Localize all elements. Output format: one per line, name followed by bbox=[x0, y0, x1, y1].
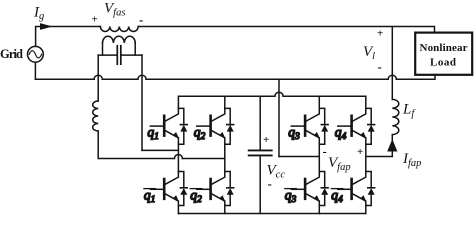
inductor L series coil bbox=[93, 101, 99, 131]
wire top line grid to transformer bbox=[36, 27, 101, 47]
transistor q1 complement (IGBT) bbox=[150, 172, 178, 214]
wire Lf branch top bbox=[391, 27, 393, 100]
transistor q2 (IGBT) bbox=[197, 96, 225, 171]
label q2 complement (overbar) bbox=[190, 188, 202, 206]
wire top line transformer to load bbox=[138, 27, 434, 33]
nonlinear load box bbox=[415, 33, 472, 75]
svg-text:q4: q4 bbox=[335, 125, 347, 143]
capacitor filter plates bbox=[117, 46, 121, 64]
svg-text:Ig: Ig bbox=[33, 5, 44, 23]
wire tank bus left bbox=[98, 54, 117, 56]
svg-text:Vfas: Vfas bbox=[104, 1, 125, 19]
wire return line middle segment bbox=[146, 78, 388, 80]
svg-text:-: - bbox=[378, 59, 382, 74]
wire A to leg1 midpoint bbox=[142, 149, 178, 151]
svg-text:q3: q3 bbox=[288, 125, 300, 143]
svg-text:q4: q4 bbox=[331, 188, 343, 206]
wire Lf to leg4 midpoint bbox=[366, 135, 393, 157]
svg-text:-: - bbox=[323, 144, 327, 159]
wire source bottom to return line bbox=[34, 62, 36, 79]
sine wave inside source bbox=[29, 51, 41, 58]
dc top rail left part bbox=[178, 95, 275, 97]
svg-text:Vl: Vl bbox=[363, 44, 375, 62]
svg-text:+: + bbox=[357, 146, 363, 158]
capacitor Vcc plates bbox=[249, 150, 272, 155]
svg-text:q1: q1 bbox=[147, 125, 159, 143]
transistor q3 (IGBT) bbox=[291, 96, 319, 171]
transistor q4 (IGBT) bbox=[338, 96, 366, 171]
svg-text:q1: q1 bbox=[144, 188, 156, 206]
dc bottom rail bbox=[178, 213, 365, 215]
wire tank left vertical bbox=[97, 55, 99, 101]
transistor q3 complement (IGBT) bbox=[291, 172, 319, 214]
transistor q2 complement (IGBT) bbox=[197, 172, 225, 214]
hop wire B over leg1 bbox=[174, 155, 182, 159]
wire B to leg2 midpoint bbox=[182, 158, 224, 160]
svg-text:+: + bbox=[377, 28, 383, 40]
dc top rail right part bbox=[283, 95, 366, 97]
capacitor Vcc top lead bbox=[259, 96, 261, 150]
inductor Lf coil bbox=[392, 99, 399, 134]
diode D1 complement antiparallel bbox=[178, 172, 187, 206]
hop rail over shunt return branch bbox=[275, 92, 283, 96]
wire return line right segment to load bbox=[396, 76, 435, 80]
wire coil to wire B corner bbox=[98, 131, 174, 159]
diode D3 complement antiparallel bbox=[319, 172, 328, 206]
svg-text:+: + bbox=[92, 14, 98, 26]
svg-text:Load: Load bbox=[430, 57, 456, 69]
svg-text:+: + bbox=[263, 134, 269, 146]
source Grid AC circle bbox=[28, 46, 44, 62]
svg-text:Vfap: Vfap bbox=[328, 155, 351, 173]
svg-text:Grid: Grid bbox=[0, 47, 23, 61]
hop over Lf branch bbox=[388, 75, 396, 79]
svg-text:q2: q2 bbox=[190, 188, 202, 206]
wire to leg3 midpoint bbox=[279, 156, 319, 158]
transformer primary winding bbox=[100, 27, 138, 32]
hop over tank right vertical bbox=[138, 75, 146, 79]
diode D2 complement antiparallel bbox=[225, 172, 234, 206]
diode D4 antiparallel with q4 bbox=[366, 108, 375, 144]
wire secondary right lead bbox=[134, 43, 136, 55]
diode D1 antiparallel with q1 bbox=[178, 108, 187, 144]
capacitor Vcc bottom lead bbox=[259, 156, 261, 214]
diode D4 complement antiparallel bbox=[366, 172, 375, 206]
svg-text:-: - bbox=[139, 12, 143, 27]
hop over tank left vertical bbox=[94, 75, 102, 79]
wire tank bus right bbox=[121, 54, 142, 56]
svg-text:Lf: Lf bbox=[402, 102, 416, 120]
wire secondary left lead bbox=[102, 43, 104, 55]
svg-text:Nonlinear: Nonlinear bbox=[420, 42, 468, 54]
label q4 complement (overbar) bbox=[331, 188, 343, 206]
svg-text:q3: q3 bbox=[285, 188, 297, 206]
diode D3 antiparallel with q3 bbox=[319, 108, 328, 144]
arrow Ig direction bbox=[40, 23, 53, 30]
label q3 complement (overbar) bbox=[285, 188, 297, 206]
diode D2 antiparallel with q2 bbox=[225, 108, 234, 144]
wire return line between hops bbox=[102, 78, 138, 80]
wire shunt branch left vertical bbox=[278, 79, 280, 156]
svg-text:-: - bbox=[268, 176, 272, 191]
transistor q4 complement (IGBT) bbox=[338, 172, 366, 214]
arrow Ifap direction bbox=[387, 139, 397, 152]
wire tank right vertical bbox=[141, 55, 143, 150]
transistor q1 (IGBT) bbox=[150, 96, 178, 171]
svg-text:q2: q2 bbox=[194, 125, 206, 143]
svg-text:Ifap: Ifap bbox=[402, 151, 421, 169]
transformer secondary winding bbox=[103, 36, 136, 43]
wire return line left segment bbox=[35, 78, 94, 80]
label q1 complement (overbar) bbox=[144, 188, 156, 206]
